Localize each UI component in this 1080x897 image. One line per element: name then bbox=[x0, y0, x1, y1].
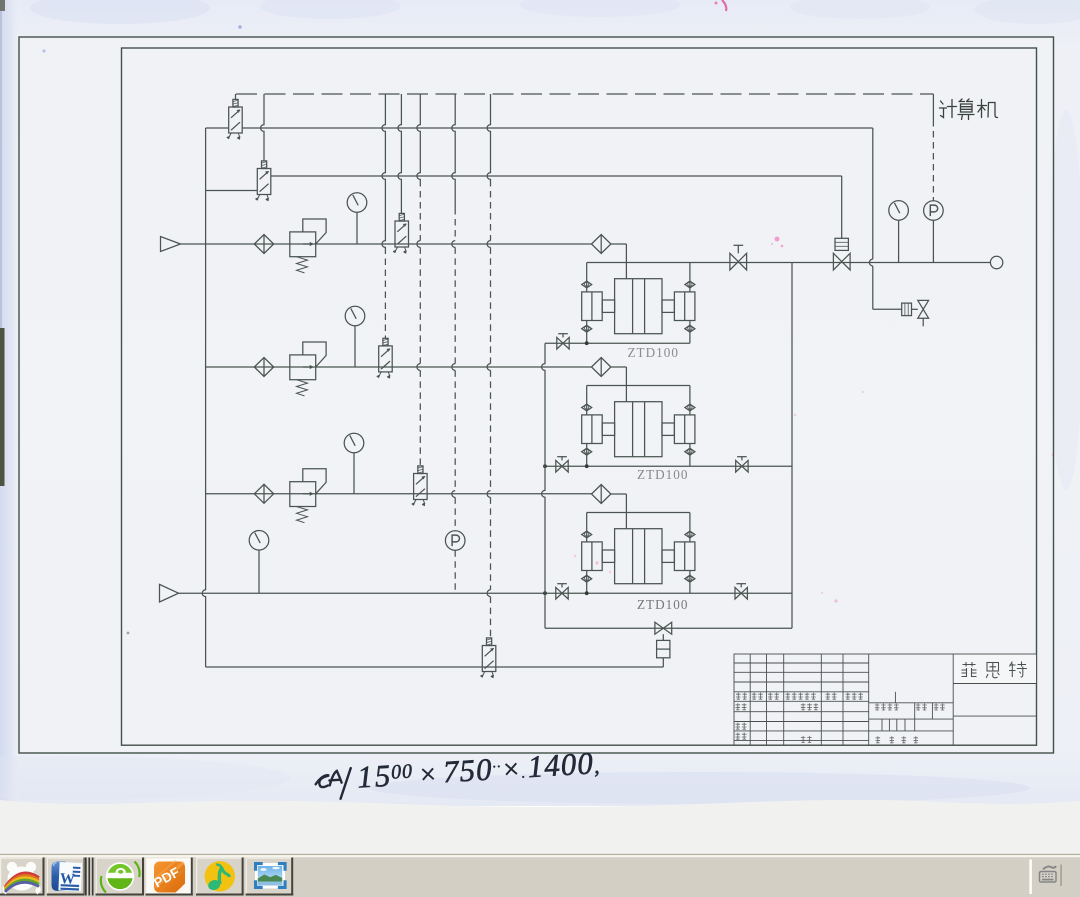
svg-text:ZTD100: ZTD100 bbox=[637, 597, 688, 612]
svg-text:ZTD100: ZTD100 bbox=[637, 467, 688, 482]
svg-text:ZTD100: ZTD100 bbox=[628, 345, 679, 360]
